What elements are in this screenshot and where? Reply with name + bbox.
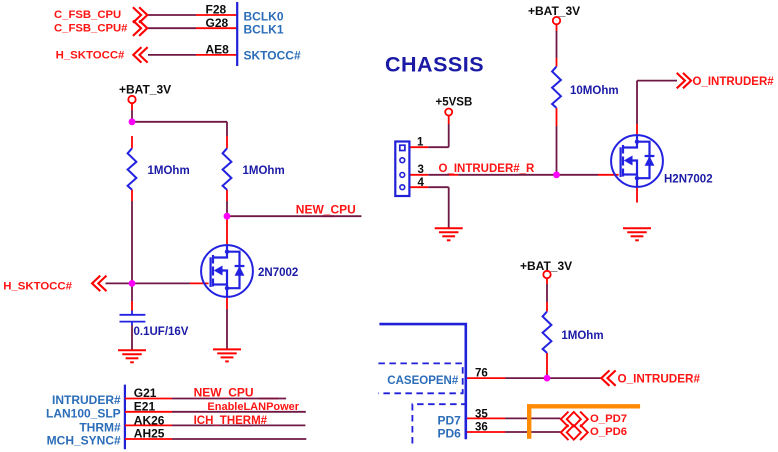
svg-text:0.1UF/16V: 0.1UF/16V bbox=[134, 326, 189, 338]
svg-text:THRM#: THRM# bbox=[79, 420, 121, 434]
svg-text:MCH_SYNC#: MCH_SYNC# bbox=[47, 434, 121, 448]
svg-text:G21: G21 bbox=[134, 386, 157, 400]
svg-text:BCLK1: BCLK1 bbox=[244, 23, 284, 37]
svg-text:3: 3 bbox=[418, 164, 424, 176]
svg-text:+BAT_3V: +BAT_3V bbox=[119, 83, 171, 97]
svg-text:O_PD6: O_PD6 bbox=[590, 426, 627, 438]
svg-text:O_INTRUDER#: O_INTRUDER# bbox=[693, 76, 775, 88]
svg-text:1: 1 bbox=[417, 137, 424, 149]
svg-text:+BAT_3V: +BAT_3V bbox=[528, 4, 580, 18]
svg-text:O_INTRUDER#: O_INTRUDER# bbox=[618, 373, 701, 386]
svg-text:E21: E21 bbox=[134, 399, 156, 413]
svg-text:76: 76 bbox=[475, 368, 488, 380]
svg-text:EnableLANPower: EnableLANPower bbox=[207, 401, 299, 413]
svg-text:PD6: PD6 bbox=[438, 427, 462, 441]
svg-text:PD7: PD7 bbox=[438, 414, 462, 428]
svg-text:O_PD7: O_PD7 bbox=[590, 413, 627, 425]
svg-text:36: 36 bbox=[475, 422, 488, 434]
svg-text:H_SKTOCC#: H_SKTOCC# bbox=[3, 281, 72, 293]
svg-text:4: 4 bbox=[418, 177, 425, 189]
svg-text:O_INTRUDER#_R: O_INTRUDER#_R bbox=[439, 163, 536, 175]
svg-text:1MOhm: 1MOhm bbox=[148, 165, 190, 177]
svg-text:BCLK0: BCLK0 bbox=[244, 10, 284, 24]
svg-text:C_FSB_CPU#: C_FSB_CPU# bbox=[54, 23, 128, 35]
svg-text:10MOhm: 10MOhm bbox=[570, 85, 619, 97]
svg-text:CHASSIS: CHASSIS bbox=[385, 53, 484, 77]
svg-text:SKTOCC#: SKTOCC# bbox=[244, 49, 301, 63]
svg-text:G28: G28 bbox=[206, 16, 229, 30]
svg-text:35: 35 bbox=[475, 409, 488, 421]
svg-text:AE8: AE8 bbox=[206, 43, 230, 57]
svg-text:NEW_CPU: NEW_CPU bbox=[194, 386, 254, 400]
svg-text:INTRUDER#: INTRUDER# bbox=[52, 393, 121, 407]
svg-text:CASEOPEN#: CASEOPEN# bbox=[387, 375, 459, 387]
svg-text:1MOhm: 1MOhm bbox=[243, 165, 285, 177]
svg-text:H_SKTOCC#: H_SKTOCC# bbox=[56, 49, 125, 61]
svg-text:1MOhm: 1MOhm bbox=[561, 330, 603, 342]
svg-text:F28: F28 bbox=[206, 3, 227, 17]
svg-text:LAN100_SLP: LAN100_SLP bbox=[46, 406, 121, 420]
svg-text:C_FSB_CPU: C_FSB_CPU bbox=[54, 9, 121, 21]
svg-text:+5VSB: +5VSB bbox=[436, 96, 473, 108]
svg-text:H2N7002: H2N7002 bbox=[664, 174, 713, 186]
svg-text:AK26: AK26 bbox=[134, 414, 165, 428]
svg-text:2N7002: 2N7002 bbox=[258, 267, 298, 279]
svg-text:AH25: AH25 bbox=[134, 427, 165, 441]
svg-text:NEW_CPU: NEW_CPU bbox=[296, 203, 356, 217]
svg-text:ICH_THERM#: ICH_THERM# bbox=[194, 415, 268, 427]
